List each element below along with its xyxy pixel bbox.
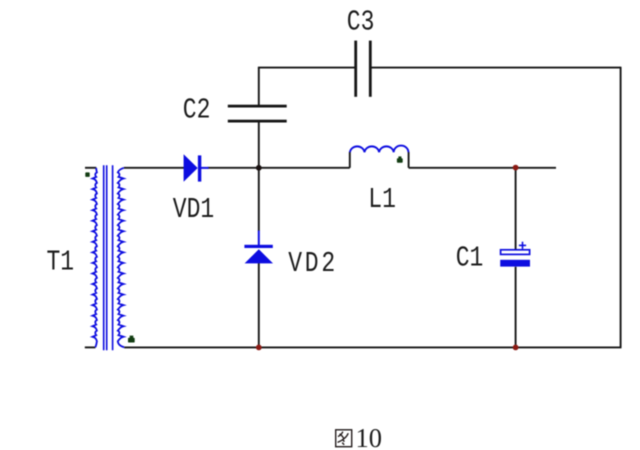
wire: C1 bottom plate down to bottom rail: [515, 267, 517, 348]
junction node A dot: [256, 165, 262, 171]
capacitor C3 right plate: [369, 41, 372, 97]
transformer T1 primary winding: [93, 168, 97, 347]
capacitor C2 top plate: [228, 105, 287, 108]
transformer T1 core line 1: [103, 165, 105, 350]
svg-text:VD2: VD2: [288, 248, 335, 280]
capacitor C2 bottom plate: [228, 120, 287, 123]
wire: VD1 cathode to node A to L1 left post: [208, 167, 350, 169]
svg-text:VD1: VD1: [173, 194, 214, 226]
wire: C2 top plate up to corner: [258, 68, 260, 105]
wire: right side vertical: [620, 67, 622, 348]
caption character 图: [336, 430, 352, 447]
capacitor C3 left plate: [354, 41, 357, 97]
svg-text:L1: L1: [368, 184, 396, 216]
junction dot C1 bottom: [513, 345, 519, 351]
svg-text:10: 10: [356, 423, 383, 450]
transformer T1 secondary winding: [118, 168, 124, 347]
svg-text:T1: T1: [47, 246, 75, 278]
wire: L1 right post: [408, 152, 410, 168]
capacitor C1 plus sign: [519, 242, 526, 249]
diode VD2: [244, 231, 273, 264]
svg-text:C2: C2: [183, 95, 211, 127]
inductor L1: [350, 146, 409, 153]
transformer phase dot bottom-right: [128, 336, 135, 343]
winding cusp blobs: [92, 178, 124, 338]
wire: L1 right to C1 top node to output stub: [409, 167, 556, 169]
wire: top-left primary stub: [85, 167, 96, 169]
diode VD1: [184, 154, 209, 181]
junction dot VD2 bottom: [256, 345, 262, 351]
wire: node A up to C2 bottom plate: [258, 122, 260, 168]
wire: L1 left post: [349, 152, 351, 168]
wire: secondary top to VD1 anode: [124, 167, 184, 169]
inductor L1 phase dot: [397, 156, 403, 162]
transformer phase dot top-left: [85, 172, 89, 177]
svg-text:C1: C1: [456, 243, 484, 275]
svg-text:C3: C3: [347, 7, 375, 39]
wire: bottom-left primary stub: [85, 346, 96, 348]
transformer T1 core line 2: [106, 165, 108, 350]
wire: C1 top node down to C1 top plate: [515, 168, 517, 250]
transformer T1 core line 3: [112, 165, 114, 350]
junction dot C1 top: [513, 165, 519, 171]
wire: C3 right plate to top-right corner: [372, 67, 621, 69]
capacitor C1 top plate (polarized, hollow): [501, 250, 530, 255]
wire: VD2 anode down to bottom rail: [258, 263, 260, 347]
wire: corner to C3 left plate: [258, 67, 355, 69]
wire: bottom rail: [124, 346, 621, 348]
capacitor C1 bottom plate: [500, 260, 530, 267]
wire: node A down to VD2 cathode lead: [258, 168, 260, 231]
